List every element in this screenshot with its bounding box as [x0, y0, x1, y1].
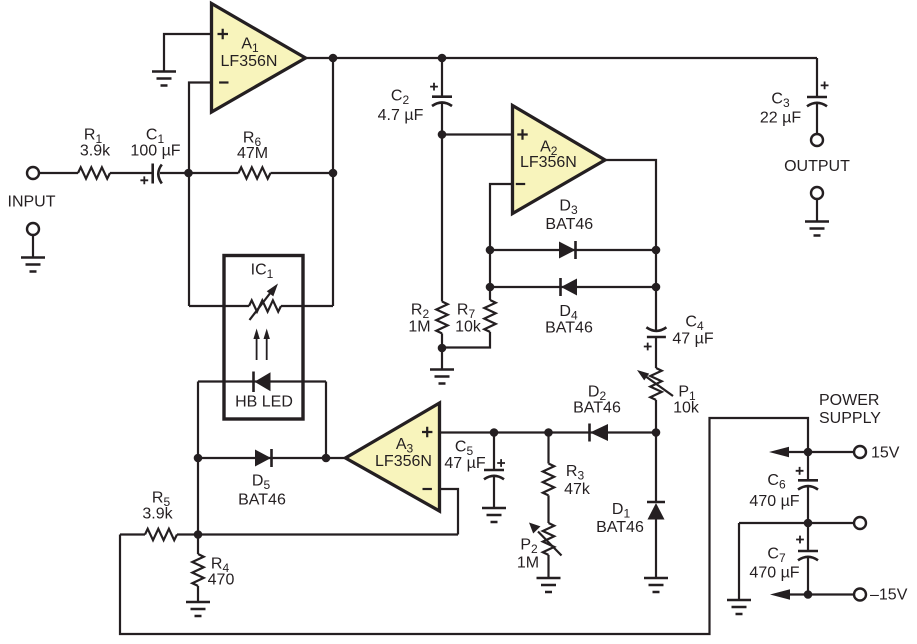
svg-text:LF356N: LF356N [375, 453, 432, 470]
wire C2 bottom down to R2 [441, 103, 443, 302]
wire +15V rail [787, 451, 854, 453]
svg-text:POWER: POWER [819, 392, 879, 409]
svg-text:D5: D5 [252, 473, 271, 493]
svg-text:15V: 15V [871, 445, 900, 462]
svg-text:47 µF: 47 µF [444, 455, 485, 472]
node C5 junction [490, 428, 499, 437]
resistor R2 [436, 302, 447, 370]
arrow +15V to circuit [769, 447, 789, 457]
node A2 + input junction [438, 130, 447, 139]
ground at R2/R7 [430, 370, 454, 384]
svg-text:BAT46: BAT46 [545, 216, 593, 233]
wire HB LED rail [198, 380, 326, 382]
potentiometer P2 [529, 523, 562, 579]
svg-text:47M: 47M [237, 145, 268, 162]
svg-text:3.9k: 3.9k [80, 143, 111, 160]
wire A2 output down rail [605, 160, 656, 331]
capacitor C1 [140, 164, 161, 185]
svg-text:R3: R3 [566, 463, 585, 483]
node R2/R7 ground junction [438, 344, 447, 353]
node D3 left junction [486, 246, 495, 255]
capacitor C2 [430, 58, 452, 106]
wire photoresistor right lead [281, 305, 333, 307]
svg-text:1M: 1M [408, 319, 430, 336]
svg-text:47k: 47k [564, 481, 591, 498]
node +15V junction [804, 448, 813, 457]
ground at C5 [482, 508, 506, 522]
svg-text:10k: 10k [455, 319, 482, 336]
op-amp A3 [346, 403, 440, 511]
input terminal [27, 167, 39, 179]
wire A3 - input feedback [440, 489, 459, 535]
node A1 output [329, 54, 338, 63]
ground at P2 [537, 578, 561, 592]
svg-text:IC1: IC1 [251, 262, 274, 282]
svg-text:BAT46: BAT46 [238, 492, 286, 509]
ground at input [21, 258, 45, 272]
svg-text:100 µF: 100 µF [130, 143, 180, 160]
node mid rail junction [804, 519, 813, 528]
svg-text:4.7 µF: 4.7 µF [378, 107, 424, 124]
svg-text:BAT46: BAT46 [545, 320, 593, 337]
svg-text:HB LED: HB LED [235, 394, 293, 411]
wire A3 + input rail (D2 rail) [440, 431, 657, 433]
node R5/R4/A3 feedback junction [194, 530, 203, 539]
output terminal [811, 134, 823, 146]
resistor R4 [192, 535, 203, 603]
ground at power supply [727, 600, 751, 614]
diode D4 [561, 278, 578, 296]
ground at D1 [644, 578, 668, 592]
resistor R3 [543, 433, 554, 524]
node D2/P1/D1 junction [652, 428, 661, 437]
wire D3 rail [490, 249, 656, 251]
svg-text:C7: C7 [767, 546, 786, 566]
svg-text:P2: P2 [520, 537, 538, 557]
svg-text:10k: 10k [673, 400, 700, 417]
diode D3 [559, 241, 576, 259]
wire LED left vertical down [197, 382, 199, 535]
svg-text:SUPPLY: SUPPLY [819, 410, 881, 427]
wire D4 rail [490, 286, 656, 288]
svg-text:LF356N: LF356N [221, 53, 278, 70]
node D5 right junction [322, 454, 331, 463]
svg-text:470 µF: 470 µF [749, 493, 799, 510]
wire feedback rail [120, 533, 458, 535]
capacitor C6 [796, 452, 818, 523]
resistor R6 [239, 167, 271, 178]
svg-text:C3: C3 [771, 91, 790, 111]
wire photoresistor left lead [189, 305, 249, 307]
node C2 top rail junction [438, 54, 447, 63]
potentiometer P1 [637, 368, 673, 433]
terminal 15V [854, 446, 866, 458]
wire -15V rail [788, 593, 854, 595]
node junction input/C1/R6 [184, 169, 193, 178]
resistor R5 [145, 529, 177, 540]
wire input ground stem [32, 235, 34, 258]
output ground terminal [811, 187, 823, 199]
wire bottom power loop [120, 418, 808, 634]
svg-text:OUTPUT: OUTPUT [784, 158, 850, 175]
terminal -15V [854, 589, 866, 601]
node D5 left junction [194, 454, 203, 463]
node -15V junction [804, 590, 813, 599]
svg-text:LF356N: LF356N [520, 154, 577, 171]
svg-text:–15V: –15V [870, 587, 908, 604]
capacitor C4 [644, 327, 667, 368]
capacitor C5 [484, 433, 505, 509]
node R3 junction [544, 428, 553, 437]
svg-text:3.9k: 3.9k [142, 506, 173, 523]
wire 0V mid rail [739, 522, 854, 524]
IC1 optocoupler box [224, 256, 303, 420]
svg-text:1M: 1M [517, 555, 539, 572]
svg-text:47 µF: 47 µF [672, 331, 713, 348]
wire input rail [39, 172, 333, 174]
op-amp A2 [513, 106, 606, 214]
wire A1 output vertical to photoresistor [332, 58, 334, 306]
svg-text:C2: C2 [391, 88, 410, 108]
node D4 left junction [486, 283, 495, 292]
input ground terminal [27, 223, 39, 235]
diode D5 [255, 449, 272, 467]
wire A1 output top rail [306, 57, 818, 59]
wire mid rail to ground [738, 523, 740, 600]
svg-text:22 µF: 22 µF [760, 110, 801, 127]
svg-text:INPUT: INPUT [8, 194, 56, 211]
svg-text:BAT46: BAT46 [596, 519, 644, 536]
arrow -15V to circuit [770, 589, 790, 599]
terminal 0V [854, 517, 866, 529]
diode D2 [590, 424, 609, 442]
wire to A2 + input [442, 133, 513, 135]
resistor R1 [78, 167, 110, 178]
svg-text:470 µF: 470 µF [749, 565, 799, 582]
light arrows from LED to photoresistor [253, 329, 270, 361]
diode D1 [647, 433, 665, 579]
wire D5 rail to A3 output [198, 457, 346, 459]
wire LED right vertical down [325, 382, 327, 459]
svg-text:C6: C6 [767, 472, 786, 492]
op-amp A1 [212, 4, 306, 113]
svg-text:D3: D3 [559, 198, 578, 218]
node D4 right junction [652, 283, 661, 292]
wire A1 +input to ground [164, 34, 212, 72]
svg-text:D1: D1 [612, 501, 631, 521]
HB LED in IC1 [254, 372, 271, 393]
ground at A1 + input [152, 72, 176, 86]
photoresistor in IC1 [249, 284, 281, 321]
capacitor C7 [796, 523, 818, 595]
wire A1 -input down to IC1 photoresistor [189, 83, 212, 307]
ground at R4 [186, 602, 210, 616]
svg-text:470: 470 [208, 572, 235, 589]
svg-text:BAT46: BAT46 [573, 400, 621, 417]
wire output ground stem [816, 199, 818, 222]
resistor R7 [442, 300, 496, 348]
node junction R6 right / A1 output vertical [329, 169, 338, 178]
capacitor C3 [807, 58, 829, 134]
wire A2 - input to R7 [490, 184, 513, 300]
ground at output [805, 222, 829, 236]
node D3 right junction [652, 246, 661, 255]
